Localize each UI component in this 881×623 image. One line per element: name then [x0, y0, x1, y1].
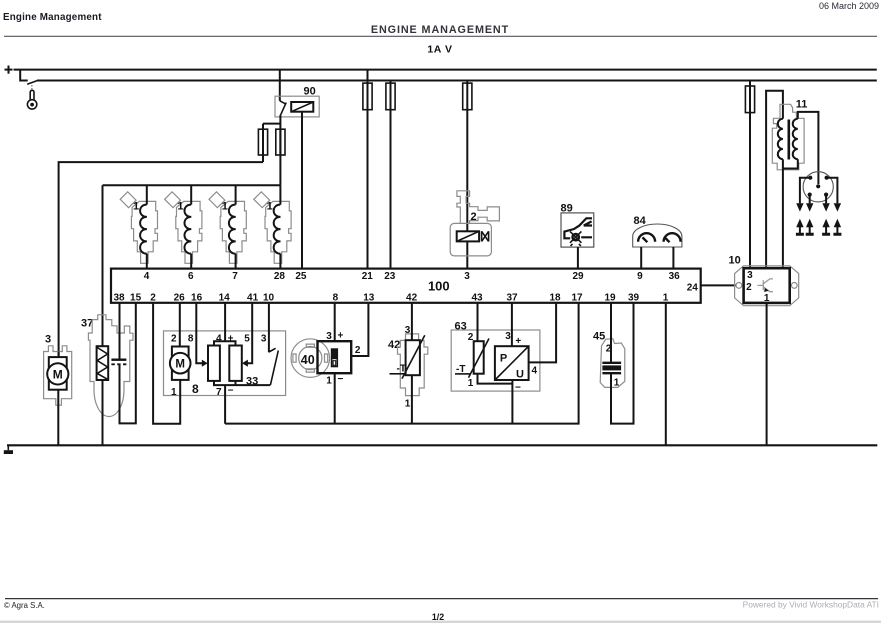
ignition module 10 [729, 255, 799, 306]
MAP pressure cell [495, 331, 538, 394]
ignition coil 1 (cyl B) [165, 185, 202, 268]
svg-text:18: 18 [549, 293, 561, 304]
header rule [4, 35, 877, 37]
fuse to module 10 pin 3 [749, 81, 751, 269]
transformer secondary winding [793, 119, 798, 159]
svg-text:36: 36 [669, 271, 681, 282]
svg-text:1: 1 [267, 201, 273, 213]
plus terminal [5, 66, 13, 74]
wire relay coil to pin 25 [301, 112, 303, 269]
svg-text:3: 3 [747, 270, 753, 281]
svg-text:−: − [228, 386, 234, 397]
throttle pot track 2 [229, 346, 242, 381]
svg-text:21: 21 [362, 271, 374, 282]
fuse to purge valve [466, 81, 468, 269]
svg-text:M: M [53, 367, 63, 381]
svg-text:37: 37 [506, 293, 518, 304]
svg-text:1: 1 [171, 387, 177, 398]
ignition key symbol [27, 90, 36, 109]
wire pin 10 to idle switch [268, 303, 270, 352]
svg-text:1: 1 [222, 201, 228, 213]
svg-text:3: 3 [464, 271, 470, 282]
svg-text:38: 38 [113, 293, 125, 304]
svg-text:1: 1 [326, 375, 332, 386]
svg-text:Powered by Vivid WorkshopData: Powered by Vivid WorkshopData ATI [743, 599, 879, 609]
svg-text:−: − [337, 374, 343, 385]
wire pin 38 to lambda cell [119, 303, 121, 359]
63 air temp thermistor [455, 332, 489, 389]
wiper 2 arrow [242, 360, 248, 367]
svg-text:17: 17 [571, 293, 583, 304]
lambda cell [111, 360, 126, 365]
idle switch [269, 348, 278, 385]
suppressor 45 [593, 331, 625, 389]
svg-text:16: 16 [191, 293, 203, 304]
svg-text:1: 1 [764, 293, 770, 304]
svg-text:23: 23 [384, 271, 396, 282]
svg-text:40: 40 [301, 353, 315, 367]
svg-text:1A V: 1A V [427, 44, 452, 56]
svg-text:100: 100 [428, 278, 450, 293]
idle speed motor [170, 347, 191, 380]
svg-text:4: 4 [144, 271, 150, 282]
wire pin 8 to sensor 40 [334, 303, 336, 341]
svg-text:2: 2 [468, 332, 474, 343]
transformer 11 outline [772, 104, 804, 170]
wire pin 1 to earth [665, 303, 667, 445]
svg-text:4: 4 [532, 366, 538, 377]
ECU top pin labels [144, 271, 699, 294]
svg-text:3: 3 [261, 333, 267, 344]
wire coil bus to lambda heater [102, 185, 104, 346]
svg-text:6: 6 [188, 271, 194, 282]
bus 30 (top supply line) [14, 69, 877, 71]
svg-text:90: 90 [304, 86, 316, 98]
relay 90 [275, 86, 319, 117]
wire relay output branch [263, 115, 280, 185]
component 89 (vehicle) [561, 203, 594, 248]
distributor cap [803, 172, 833, 202]
wire secondary to distributor [798, 112, 819, 184]
fuse to pin 21 [367, 70, 369, 269]
svg-text:3: 3 [405, 325, 411, 336]
ignition switch blade [27, 80, 38, 84]
earth bus [7, 444, 877, 446]
svg-text:7: 7 [216, 387, 222, 398]
wire fuse to fuel pump [59, 162, 263, 357]
svg-text:3: 3 [45, 334, 51, 346]
svg-text:+: + [515, 336, 521, 347]
spark plug arrows [796, 219, 842, 235]
svg-text:14: 14 [219, 293, 231, 304]
svg-text:29: 29 [572, 271, 584, 282]
lambda heater element [97, 346, 109, 380]
svg-text:2: 2 [150, 293, 156, 304]
coolant temp sensor 42 [388, 325, 428, 410]
wire sensor 40 pin2 to pin 13 [351, 303, 368, 356]
wire pin 19 through 45 to pin 39 [611, 303, 634, 424]
wire map minus to sensor earth rail [511, 380, 513, 424]
crank sensor 40 [318, 330, 361, 386]
lambda sensor 37 [81, 315, 133, 417]
wire module 10 pin 1 to earth [766, 303, 768, 445]
pot ground rail [213, 381, 270, 424]
svg-text:1: 1 [405, 398, 411, 409]
purge valve 2 outline [450, 191, 499, 256]
svg-text:13: 13 [363, 293, 375, 304]
svg-text:10: 10 [729, 255, 741, 267]
svg-text:06 March 2009: 06 March 2009 [819, 1, 879, 11]
svg-text:P: P [500, 353, 507, 365]
svg-text:8: 8 [192, 382, 199, 396]
33 pin labels [171, 333, 267, 398]
svg-text:8: 8 [333, 293, 339, 304]
svg-text:15: 15 [130, 293, 142, 304]
svg-text:3: 3 [505, 331, 511, 342]
fuse (pump feed) [258, 129, 267, 155]
svg-text:5: 5 [244, 333, 250, 344]
svg-text:42: 42 [406, 293, 418, 304]
svg-text:63: 63 [455, 321, 467, 333]
throttle pot track 1 [208, 346, 220, 381]
svg-text:+: + [228, 333, 234, 344]
svg-text:4: 4 [216, 333, 222, 344]
wiper 1 arrow [202, 360, 208, 367]
wire thermistor to map minus [478, 374, 513, 384]
wire lambda heater to earth [102, 380, 104, 445]
bus 15 (switched supply line) [37, 80, 877, 82]
svg-text:42: 42 [388, 339, 400, 351]
wire 84 to pin 9 [640, 247, 642, 269]
crank sensor wheel 40 [291, 339, 330, 378]
svg-text:1: 1 [177, 201, 183, 213]
wire sensor 42 to sensor earth rail [411, 375, 413, 423]
wire sensor 40 to sensor earth rail [334, 373, 336, 423]
svg-text:10: 10 [263, 293, 275, 304]
MAP sensor 63 box [451, 330, 540, 391]
throttle body 33 box [164, 331, 286, 396]
svg-text:7: 7 [232, 271, 238, 282]
wire map out to pin 18 [529, 303, 557, 363]
svg-text:1: 1 [133, 201, 139, 213]
wire 84 to pin 36 [672, 247, 674, 269]
svg-text:1/2: 1/2 [432, 612, 444, 622]
fuse to pin 23 [390, 81, 392, 269]
wire pin 37 to map [511, 303, 513, 346]
ignition coil bus [103, 184, 281, 186]
svg-text:45: 45 [593, 331, 605, 343]
wire motor to pin 2 [153, 303, 180, 424]
wire loop primary to module 10 pin 2 [766, 91, 783, 268]
svg-text:2: 2 [471, 211, 477, 223]
svg-text:ENGINE MANAGEMENT: ENGINE MANAGEMENT [371, 24, 509, 36]
svg-text:8: 8 [188, 333, 194, 344]
wire pin 43 to thermistor [477, 303, 479, 341]
svg-text:28: 28 [274, 271, 286, 282]
wire pin 26 to idle motor [179, 303, 181, 347]
wires into module 10 [750, 267, 766, 269]
svg-text:Engine Management: Engine Management [3, 12, 102, 23]
key mechanical link [31, 85, 33, 90]
svg-text:1: 1 [614, 377, 620, 388]
ignition coil 1 (cyl C) [209, 185, 246, 268]
wire pump to earth [57, 390, 59, 446]
HT lead arrows (to plugs) [796, 178, 841, 212]
svg-text:© Agra S.A.: © Agra S.A. [4, 601, 45, 610]
svg-text:43: 43 [471, 293, 483, 304]
svg-text:11: 11 [796, 99, 808, 111]
wire pin 41 to wiper 2 [248, 303, 253, 363]
svg-text:3: 3 [326, 331, 332, 342]
wire 89 to pin 29 [577, 247, 579, 269]
wire bus1 to ignition switch [20, 70, 28, 81]
wire pin 16 to wiper 1 [196, 303, 202, 363]
svg-text:9: 9 [637, 271, 643, 282]
svg-text:37: 37 [81, 318, 93, 330]
purge valve solenoid [457, 231, 489, 241]
wire bus to relay 90 [279, 70, 281, 101]
svg-text:-T: -T [397, 364, 406, 375]
svg-text:1: 1 [663, 293, 669, 304]
footer rule [5, 598, 878, 600]
svg-text:+: + [337, 330, 343, 341]
svg-text:41: 41 [247, 293, 259, 304]
svg-text:U: U [516, 369, 524, 381]
ECU bottom pin labels [113, 293, 668, 304]
fuel pump 3 [44, 334, 72, 406]
svg-text:19: 19 [604, 293, 616, 304]
svg-text:39: 39 [628, 293, 640, 304]
wire pin 24 to module 10 [701, 284, 736, 286]
svg-text:25: 25 [295, 271, 307, 282]
ECU 100 box [111, 269, 701, 303]
wire secondary bottom junction [783, 159, 798, 168]
svg-text:2: 2 [355, 345, 361, 356]
svg-text:1: 1 [468, 378, 474, 389]
transformer core [787, 120, 790, 160]
pot supply rail [214, 303, 236, 346]
svg-text:2: 2 [171, 333, 177, 344]
svg-text:M: M [175, 359, 185, 371]
fuse (ignition coils feed) [276, 129, 285, 155]
ignition coil 1 (cyl A) [120, 185, 157, 268]
svg-text:24: 24 [687, 283, 699, 294]
component 84 (gauges) [633, 215, 682, 247]
svg-text:26: 26 [174, 293, 186, 304]
ignition coil 1 (cyl D) [254, 185, 291, 268]
wire pin 42 to sensor [411, 303, 413, 340]
earth symbol [4, 445, 13, 454]
svg-text:−: − [515, 382, 521, 393]
svg-text:2: 2 [746, 282, 752, 293]
transformer primary winding [778, 119, 783, 269]
sensor earth rail to pin 17 [225, 303, 578, 424]
wire lambda cell to pin 15 [120, 303, 136, 424]
